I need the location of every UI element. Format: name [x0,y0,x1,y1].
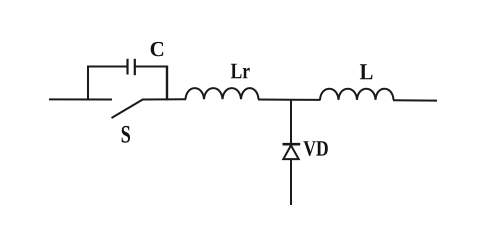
capacitor C right plate [134,59,136,75]
label VD [304,141,328,156]
wire Lr to node A [258,99,291,101]
switch S blade [112,100,143,118]
wire diode to bottom [290,159,292,205]
wire switch to Lr [142,98,186,100]
diode VD cathode bar [283,143,301,146]
label L [360,64,373,79]
capacitor C left plate [126,59,128,75]
wire L to right end [393,99,437,101]
wire capacitor top right [136,66,169,68]
label Lr [231,64,250,79]
wire capacitor right vertical [166,66,168,101]
inductor L [320,89,394,100]
label S [122,126,130,143]
wire left lead [49,98,112,100]
wire node A to diode [290,100,292,145]
inductor Lr [186,88,259,99]
wire capacitor top left [87,66,127,68]
wire node A to L [291,99,321,101]
label C [151,42,164,56]
wire capacitor left vertical [87,67,89,101]
diode VD triangle [283,145,298,159]
